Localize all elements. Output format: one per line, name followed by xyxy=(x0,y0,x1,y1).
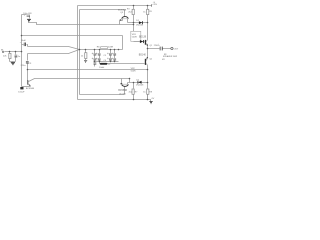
resistor R2 input shunt xyxy=(15,54,18,57)
ground R4 xyxy=(84,60,87,62)
svg-text:C3: C3 xyxy=(28,63,32,65)
transistor Q2 output bottom xyxy=(145,59,146,65)
wire input line xyxy=(5,51,22,53)
svg-text:Q1: Q1 xyxy=(150,45,154,47)
diode D1 xyxy=(139,21,143,24)
resistor R4 shunt mid xyxy=(85,53,87,59)
svg-text:100uF: 100uF xyxy=(18,91,25,93)
wire second top rail xyxy=(80,9,125,11)
wire R2 leads xyxy=(147,6,149,23)
wire right vertical x147.8 upper xyxy=(147,23,149,40)
wire input Q emitter xyxy=(22,86,31,88)
wire lower driver stubs xyxy=(122,79,128,95)
wire R2b lead xyxy=(147,95,149,100)
emitter arrow Q1 xyxy=(146,44,148,46)
svg-text:1n: 1n xyxy=(18,56,21,58)
wire R1 leads xyxy=(133,6,135,25)
resistor R3 xyxy=(132,9,134,14)
svg-text:1k: 1k xyxy=(143,92,146,94)
svg-text:Q2: Q2 xyxy=(150,59,154,61)
svg-text:BD140: BD140 xyxy=(139,54,147,56)
svg-text:+: + xyxy=(24,15,26,17)
wire X cross upper xyxy=(28,47,80,50)
svg-text:500R: 500R xyxy=(132,37,137,39)
resistor R5 xyxy=(147,9,149,14)
wire right vertical x147.8 mid xyxy=(147,45,149,58)
ground bottom right xyxy=(149,102,152,104)
wire box verticals x133 xyxy=(134,25,145,42)
svg-text:0V: 0V xyxy=(152,98,155,100)
svg-text:2200u: 2200u xyxy=(154,45,160,47)
wire y22.5 bias row xyxy=(128,22,148,24)
wire top long horizontal xyxy=(29,21,134,25)
wire driver collector stub xyxy=(124,10,126,17)
terminal +V xyxy=(151,4,153,6)
wire bottom inner rail xyxy=(80,94,125,96)
svg-text:220R: 220R xyxy=(108,46,114,48)
diode D2 xyxy=(138,81,142,84)
svg-text:10uF: 10uF xyxy=(21,40,27,42)
diode D5 top-left xyxy=(27,19,31,22)
svg-text:R5: R5 xyxy=(149,11,152,13)
wire left inner vertical xyxy=(79,10,81,95)
svg-text:Q5 40V: Q5 40V xyxy=(119,93,126,95)
wire output Q2 diagonals xyxy=(147,58,148,66)
wire bottom outer rail xyxy=(78,100,151,102)
resistor R7 xyxy=(132,89,134,94)
capacitor C7 output xyxy=(160,47,163,51)
svg-text:10uH: 10uH xyxy=(99,67,105,69)
wire X cross lower xyxy=(28,50,80,54)
svg-text:Q3: Q3 xyxy=(120,12,124,14)
ground input xyxy=(11,63,15,65)
wire mid horizontal y35 xyxy=(22,35,123,37)
svg-text:220u: 220u xyxy=(21,65,27,67)
wire input shunt leads xyxy=(10,52,16,63)
svg-text:R6: R6 xyxy=(97,46,101,48)
wire cluster col leads xyxy=(95,50,115,67)
wire output node xyxy=(148,48,171,50)
wire cluster lower line xyxy=(94,61,119,63)
wire +V top rail xyxy=(78,5,152,7)
terminal OUT xyxy=(171,47,173,49)
capacitor C4 emitter electrolytic xyxy=(20,87,23,89)
svg-text:L1: L1 xyxy=(108,64,111,66)
emitter arrow Q2 xyxy=(146,57,148,59)
input terminal xyxy=(2,51,4,53)
resistor R1 input shunt xyxy=(9,53,11,58)
wire top-left jog xyxy=(22,15,30,23)
svg-text:SPEAKER 50W: SPEAKER 50W xyxy=(163,55,177,58)
wire left outer vertical xyxy=(77,6,79,100)
capacitor C2 series left xyxy=(20,42,26,46)
wire vert x122.9 xyxy=(122,36,124,50)
wire right vertical x147.8 lower xyxy=(147,66,149,100)
wire input transistor base xyxy=(27,70,29,81)
svg-text:1N4148: 1N4148 xyxy=(136,24,144,26)
transistor Q4 input xyxy=(28,80,31,86)
resistor R8 xyxy=(147,89,149,94)
svg-text:BD139: BD139 xyxy=(139,36,147,38)
svg-text:1k: 1k xyxy=(143,12,146,14)
svg-text:BC556B: BC556B xyxy=(26,88,35,90)
svg-text:R7: R7 xyxy=(135,91,138,93)
svg-text:100u 63V: 100u 63V xyxy=(23,13,32,15)
wire left vertical x21.4 xyxy=(21,15,23,87)
wire lower left cap leads xyxy=(27,54,29,70)
svg-text:+35V: +35V xyxy=(152,4,157,6)
svg-text:22k: 22k xyxy=(3,55,7,57)
inductor L1 dark bar xyxy=(100,63,108,65)
svg-text:R3: R3 xyxy=(127,8,130,10)
wire main mid line xyxy=(80,49,123,51)
svg-text:OUT: OUT xyxy=(174,49,179,51)
wire input Q collector xyxy=(29,79,130,83)
svg-text:4R: 4R xyxy=(162,59,165,61)
wire lower diode row xyxy=(128,82,148,84)
svg-text:1k: 1k xyxy=(81,56,84,58)
wire output Q1 diagonals xyxy=(147,40,148,45)
capacitor C1 top-left electrolytic plates xyxy=(24,15,30,18)
node dots xyxy=(9,5,149,101)
transistor Q1 output top xyxy=(145,40,146,45)
svg-text:C5: C5 xyxy=(104,55,107,57)
wire shunt R leads xyxy=(85,50,87,61)
svg-text:1N4148: 1N4148 xyxy=(136,85,144,87)
wire R1b leads xyxy=(133,83,135,100)
svg-text:R8: R8 xyxy=(149,91,152,93)
svg-text:500R: 500R xyxy=(131,70,136,72)
svg-text:D2: D2 xyxy=(136,80,140,82)
transistor Q5 driver bottom xyxy=(121,83,129,86)
capacitor C3 lower-left xyxy=(26,61,29,63)
diode D3 xyxy=(140,40,144,43)
svg-text:BC556B: BC556B xyxy=(118,90,127,92)
box VR1 preset xyxy=(131,31,141,41)
wire lower base row xyxy=(100,63,145,65)
wire feedback xyxy=(28,69,148,71)
capacitor bank columns xyxy=(92,53,116,65)
wire cap C1 leads xyxy=(22,45,28,47)
resistor R6 inline xyxy=(101,47,108,49)
transistor Q3 driver top xyxy=(120,17,128,21)
wire driver emitter diag xyxy=(120,19,128,25)
